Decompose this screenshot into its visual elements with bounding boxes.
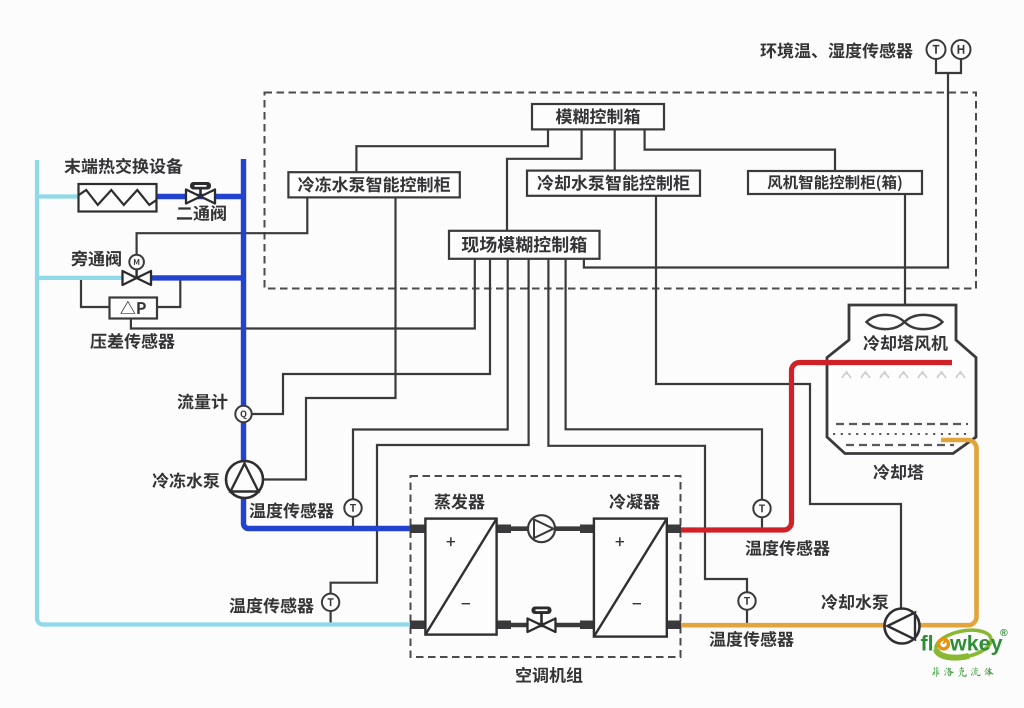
wire T2 stub bbox=[330, 611, 332, 624]
label 冷却塔 bbox=[873, 464, 923, 480]
label 冷凝器 bbox=[609, 494, 659, 510]
bypass valve motor M bbox=[129, 255, 144, 270]
evaporator port bars bbox=[410, 525, 511, 630]
wire fuzzy-box to cooling-pump cabinet bbox=[614, 129, 616, 170]
wire fuzzy-box to fan cabinet bbox=[645, 129, 835, 171]
wire chilled-pump cabinet to bypass valve actuator bbox=[137, 197, 308, 255]
temperature sensor T3 circle bbox=[753, 500, 770, 517]
differential pressure sensor ΔP box bbox=[110, 298, 158, 319]
wire T2 sensor to field fuzzy box bbox=[331, 259, 529, 594]
field fuzzy control box 现场模糊控制箱 bbox=[449, 231, 600, 259]
chilled water supply pipe (blue) bbox=[244, 159, 411, 529]
label 旁通阀 bbox=[71, 250, 121, 266]
label 冷却水泵 bbox=[821, 594, 888, 610]
wire chilled-pump cabinet to chilled pump bbox=[263, 197, 396, 479]
cyan branch to bypass valve bbox=[37, 276, 124, 280]
label 温度传感器 T4 bbox=[710, 631, 794, 647]
compressor bbox=[528, 515, 555, 542]
wire T1 sensor to field fuzzy box bbox=[353, 259, 508, 500]
wire flow meter to field fuzzy box bbox=[252, 259, 491, 414]
refrigerant pipe bottom bbox=[509, 623, 582, 628]
wire fan cabinet to tower fan bbox=[904, 194, 906, 322]
condenser port bars bbox=[580, 525, 681, 630]
label 温度传感器 T3 bbox=[746, 540, 830, 556]
flowkey logo swoosh bbox=[934, 626, 994, 662]
temperature sensor T1 circle bbox=[344, 499, 361, 516]
svg-text:wkey: wkey bbox=[949, 632, 1003, 656]
temperature sensor T2 circle bbox=[322, 594, 339, 611]
chilled water return pipe (cyan) bbox=[37, 160, 410, 625]
fan control cabinet 风机智能控制柜(箱) bbox=[748, 171, 922, 194]
wire T1 stub bbox=[352, 517, 354, 528]
cyan branch to heat exchanger bbox=[37, 194, 80, 198]
refrigerant pipe top bbox=[509, 526, 582, 531]
cooling water pump control cabinet 冷却水泵智能控制柜 bbox=[527, 171, 700, 196]
label 温度传感器 T2 bbox=[230, 597, 314, 613]
dashed control-system enclosure bbox=[265, 93, 977, 289]
wire T4 stub bbox=[746, 610, 748, 625]
wire T/H sensor junction bbox=[936, 59, 961, 74]
chilled water pump control cabinet 冷冻水泵智能控制柜 bbox=[288, 172, 459, 197]
label 末端热交换设备 bbox=[64, 158, 182, 174]
wire ambient T/H sensors to field fuzzy box bbox=[584, 73, 948, 268]
tower water dashed line 2 bbox=[846, 444, 954, 446]
wire dP sensor to field fuzzy box bbox=[131, 259, 475, 329]
flowkey logo orange o swirl bbox=[939, 639, 949, 649]
tower water dotted row bbox=[833, 433, 967, 435]
temperature sensor T4 circle bbox=[738, 592, 755, 609]
wire cooling-pump cabinet to cooling pump bbox=[656, 196, 901, 611]
tower spray nozzles bbox=[842, 374, 851, 379]
label 菲洛克流体 bbox=[932, 667, 994, 677]
wire dP left tap to cyan pipe bbox=[81, 280, 110, 307]
cooling water pump 冷却水泵 bbox=[885, 609, 920, 644]
ambient temperature sensor T circle bbox=[927, 40, 946, 59]
cooling tower 冷却塔 body bbox=[827, 305, 976, 454]
wire fuzzy-box to field fuzzy box bbox=[507, 129, 582, 230]
label 流量计 bbox=[178, 394, 228, 410]
tower water dashed line 1 bbox=[836, 423, 968, 425]
blue pipe bypass valve to riser bbox=[149, 275, 244, 280]
label 环境温、湿度传感器 bbox=[760, 42, 912, 58]
wire T4 sensor to field fuzzy box bbox=[548, 259, 747, 593]
wire fuzzy-box to chilled-pump cabinet bbox=[356, 129, 548, 172]
label 冷却塔风机 bbox=[863, 335, 947, 351]
svg-text:®: ® bbox=[1000, 627, 1008, 639]
condenser water return pipe (orange) bbox=[680, 440, 977, 625]
wire dP right tap to blue pipe bbox=[156, 280, 180, 307]
terminal heat exchanger 末端热交换设备 bbox=[79, 184, 157, 212]
ambient humidity sensor H circle bbox=[952, 40, 971, 59]
wire T3 sensor to field fuzzy box bbox=[566, 259, 762, 500]
evaporator 蒸发器 bbox=[425, 519, 496, 635]
label 蒸发器 bbox=[435, 493, 485, 509]
label 冷冻水泵 bbox=[152, 473, 219, 489]
label 空调机组 bbox=[516, 667, 582, 683]
label 压差传感器 bbox=[90, 333, 175, 349]
wire T3 stub bbox=[761, 517, 763, 529]
label 温度传感器 T1 bbox=[250, 502, 334, 518]
expansion valve bbox=[528, 619, 556, 633]
fuzzy control box 模糊控制箱 bbox=[532, 104, 664, 129]
chilled water pump 冷冻水泵 bbox=[226, 461, 263, 498]
label 二通阀 bbox=[177, 205, 226, 221]
svg-text:fl: fl bbox=[921, 632, 934, 656]
dashed AC-unit enclosure 空调机组 bbox=[411, 476, 681, 657]
bypass valve 旁通阀 with M actuator bbox=[123, 271, 152, 285]
condenser 冷凝器 bbox=[594, 519, 667, 637]
cooling tower fan blades bbox=[867, 315, 943, 329]
two-way valve 二通阀 bbox=[186, 190, 215, 204]
blue pipe heat-exchanger to riser bbox=[155, 194, 244, 199]
flow meter circle bbox=[235, 406, 251, 422]
condenser water hot pipe (red) bbox=[680, 363, 952, 531]
